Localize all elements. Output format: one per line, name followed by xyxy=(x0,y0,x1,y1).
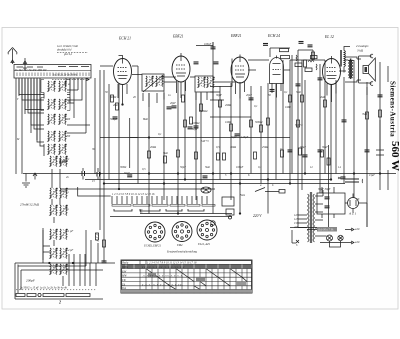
svg-text:600: 600 xyxy=(66,118,71,121)
svg-text:1 2 3 4 5 6 7 8 9 10 11 12 13: 1 2 3 4 5 6 7 8 9 10 11 12 13 14 15 16 1… xyxy=(147,262,197,265)
svg-text:1MΩ: 1MΩ xyxy=(225,121,231,124)
svg-text:x x . x x . x . x . x x . x .: x x . x x . x . x . x x . x . x . x . x … xyxy=(141,266,185,269)
svg-text:500+3: 500+3 xyxy=(295,124,303,127)
svg-text:560 W: 560 W xyxy=(389,141,400,171)
svg-text:ghz 9,2: ghz 9,2 xyxy=(64,53,73,56)
svg-text:0,1: 0,1 xyxy=(254,105,258,108)
svg-text:2 Lautspr.: 2 Lautspr. xyxy=(356,44,369,48)
svg-text:50pF: 50pF xyxy=(231,136,237,139)
svg-text:30pF: 30pF xyxy=(216,94,222,97)
svg-text:A Z 1: A Z 1 xyxy=(348,212,357,216)
svg-text:100kΩ: 100kΩ xyxy=(192,122,199,125)
svg-text:100pF: 100pF xyxy=(236,166,244,169)
svg-text:5kΩ: 5kΩ xyxy=(205,166,210,169)
svg-text:500pF: 500pF xyxy=(110,118,118,121)
svg-text:20kΩ: 20kΩ xyxy=(150,146,156,149)
svg-text:50pF: 50pF xyxy=(180,166,186,169)
svg-text:Skala: Skala xyxy=(122,262,129,265)
svg-text:25kΩ: 25kΩ xyxy=(262,146,268,149)
svg-text:EL12, AZ1: EL12, AZ1 xyxy=(197,243,211,246)
svg-text:0,1: 0,1 xyxy=(158,133,162,136)
svg-text:EBF21: EBF21 xyxy=(230,34,242,38)
svg-text:20pF: 20pF xyxy=(246,94,252,97)
svg-text:600 pF: 600 pF xyxy=(59,161,67,164)
svg-text:125pF: 125pF xyxy=(241,136,249,139)
svg-text:Ersatzwellenschalterstellung: Ersatzwellenschalterstellung xyxy=(166,251,198,254)
svg-text:15μF: 15μF xyxy=(369,174,375,177)
svg-text:220: 220 xyxy=(294,226,299,229)
svg-text:1a 1b 2a 2b 3a 3b 4a: 1a 1b 2a 2b 3a 3b 4a xyxy=(53,74,77,77)
svg-text:a.W.: a.W. xyxy=(355,241,360,244)
svg-text:TA: TA xyxy=(122,283,125,286)
svg-text:LW: LW xyxy=(121,279,126,282)
svg-text:100pF: 100pF xyxy=(204,43,212,46)
svg-text:50pF: 50pF xyxy=(192,128,198,131)
svg-text:500kΩ: 500kΩ xyxy=(255,121,262,124)
svg-text:EBF21: EBF21 xyxy=(172,35,184,39)
svg-text:220 V: 220 V xyxy=(253,214,262,218)
svg-text:200pF: 200pF xyxy=(26,279,36,283)
svg-text:2: 2 xyxy=(58,300,61,305)
svg-text:AZ: AZ xyxy=(355,198,360,201)
svg-text:1MΩ: 1MΩ xyxy=(285,106,291,109)
svg-text:2kΩ: 2kΩ xyxy=(113,104,118,107)
svg-text:Zub 30 u 7 Sk: Zub 30 u 7 Sk xyxy=(318,229,334,232)
svg-text:5kΩ: 5kΩ xyxy=(296,91,301,94)
svg-text:5kΩ: 5kΩ xyxy=(163,152,168,155)
svg-text:7kΩ: 7kΩ xyxy=(362,113,367,116)
svg-text:abcdefg hi kl: abcdefg hi kl xyxy=(57,49,72,52)
svg-text:4 pF: 4 pF xyxy=(68,249,73,252)
svg-text:Welle: Welle xyxy=(122,266,129,269)
svg-text:1 pF: 1 pF xyxy=(68,230,73,233)
svg-text:0,1: 0,1 xyxy=(280,148,284,151)
svg-text:0,1: 0,1 xyxy=(66,158,70,161)
svg-text:540+3: 540+3 xyxy=(201,140,209,143)
svg-text:2MΩ: 2MΩ xyxy=(225,104,231,107)
svg-text:Siemens-Austria: Siemens-Austria xyxy=(389,81,397,137)
svg-text:125: 125 xyxy=(294,218,299,221)
svg-text:Tu Tk2 Tk1 Tm KW MW LW: Tu Tk2 Tk1 Tm KW MW LW xyxy=(15,69,47,72)
svg-text:600Ω: 600Ω xyxy=(110,96,116,99)
svg-text:. x . x . x x . x . x . x . x: . x . x . x x . x . x . x . x x . x . x … xyxy=(142,275,184,278)
svg-text:10kΩ: 10kΩ xyxy=(230,146,236,149)
svg-text:30μF 30μF: 30μF 30μF xyxy=(318,188,331,191)
svg-text:E: E xyxy=(139,209,143,214)
svg-text:MW: MW xyxy=(121,275,127,278)
svg-text:ECH21,EBF21: ECH21,EBF21 xyxy=(143,245,162,248)
svg-text:x . x . x . . x . x . x . x .: x . x . x . . x . x . x . x . . x . x . … xyxy=(141,283,183,286)
svg-text:110: 110 xyxy=(294,214,299,217)
svg-text:EL 12: EL 12 xyxy=(324,35,334,39)
svg-text:300Ω: 300Ω xyxy=(120,166,126,169)
svg-text:2x 500/2 x 15 pF 1a 1b 2a 2b: 2x 500/2 x 15 pF 1a 1b 2a 2b 3a 3b 4a 4b xyxy=(20,287,68,290)
svg-text:0,1: 0,1 xyxy=(258,166,262,169)
svg-text:Ton: Ton xyxy=(122,287,127,290)
svg-text:50μF: 50μF xyxy=(124,172,130,175)
svg-text:150: 150 xyxy=(294,222,299,225)
svg-text:30μF: 30μF xyxy=(322,146,328,149)
svg-text:KW: KW xyxy=(121,270,127,273)
svg-text:1 2 3 4 5 6 7 8 9 10 11 12 13: 1 2 3 4 5 6 7 8 9 10 11 12 13 14 15 16 xyxy=(112,193,155,196)
svg-text:Netz: Netz xyxy=(239,194,246,197)
svg-text:EM4: EM4 xyxy=(176,244,183,247)
svg-text:0,1: 0,1 xyxy=(284,91,288,94)
svg-text:a.W.: a.W. xyxy=(355,228,360,231)
svg-text:8kΩ: 8kΩ xyxy=(143,118,148,121)
svg-text:30pF: 30pF xyxy=(59,190,65,193)
svg-text:4-20kΩ: 4-20kΩ xyxy=(199,110,207,113)
svg-text:0,5: 0,5 xyxy=(216,146,220,149)
svg-text:ECH 21: ECH 21 xyxy=(118,37,131,41)
svg-text:30μF: 30μF xyxy=(300,146,306,149)
svg-text:20pF: 20pF xyxy=(170,102,176,105)
svg-text:2kΩ: 2kΩ xyxy=(320,96,325,99)
svg-text:200: 200 xyxy=(66,135,71,138)
svg-text:ECH 24: ECH 24 xyxy=(267,34,280,38)
svg-text:3 kΩ: 3 kΩ xyxy=(357,49,364,53)
svg-text:0,5: 0,5 xyxy=(142,168,146,171)
